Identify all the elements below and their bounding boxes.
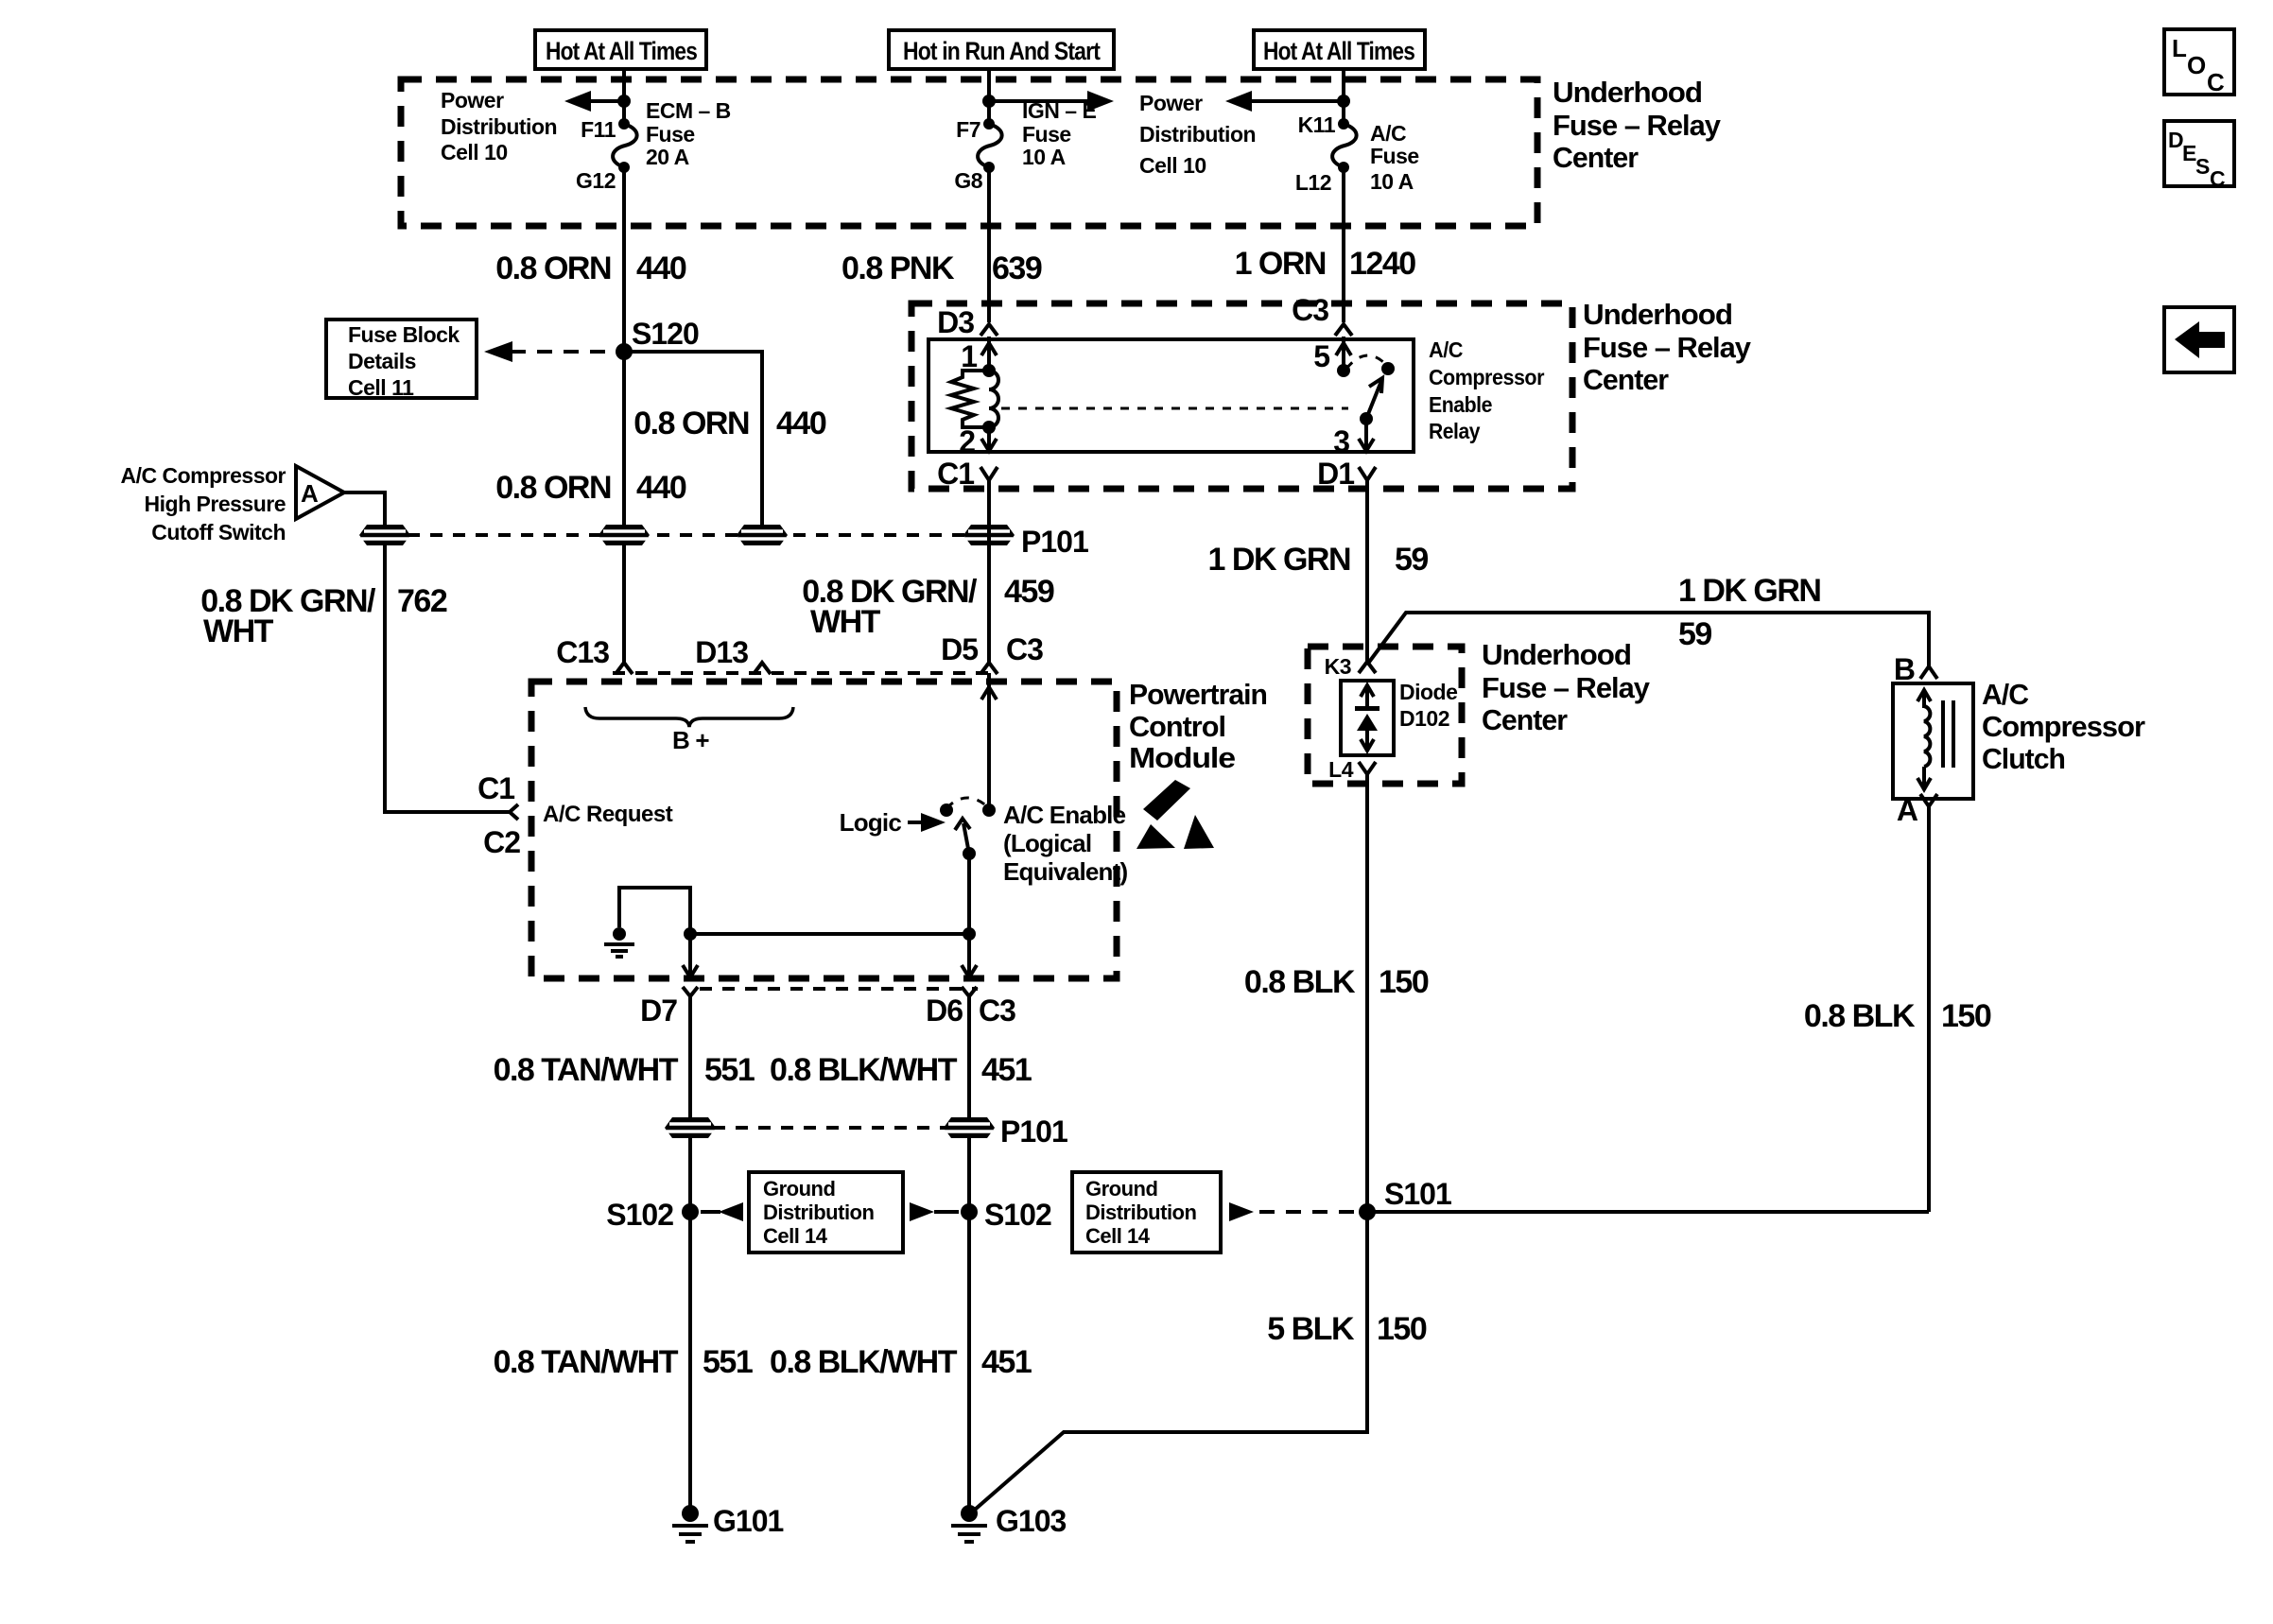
svg-text:A/C: A/C bbox=[1370, 121, 1406, 146]
svg-text:WHT: WHT bbox=[203, 613, 274, 649]
wire: 0.8 BLK 150 from clutch A down to S101 line bbox=[1927, 806, 1931, 1212]
terminal D5/C3 (PCM) bbox=[941, 632, 1043, 674]
svg-text:F7: F7 bbox=[956, 117, 980, 142]
wire: branch from S120 to D13 drop bbox=[624, 352, 762, 535]
label: 0.8 BLK 150 (left run) bbox=[1244, 964, 1429, 1000]
svg-text:D: D bbox=[2168, 128, 2183, 152]
legend box DESC bbox=[2164, 121, 2234, 191]
label: 0.8 ORN 440 (top) bbox=[495, 251, 686, 286]
svg-text:C: C bbox=[2210, 166, 2225, 191]
svg-text:Hot in Run And Start: Hot in Run And Start bbox=[903, 37, 1101, 65]
svg-text:G8: G8 bbox=[954, 168, 982, 193]
label: 0.8 TAN/WHT 551 (upper) bbox=[494, 1052, 755, 1088]
svg-text:20 A: 20 A bbox=[646, 145, 689, 169]
svg-text:K3: K3 bbox=[1325, 654, 1351, 679]
svg-text:Diode: Diode bbox=[1399, 680, 1457, 704]
svg-text:59: 59 bbox=[1395, 542, 1428, 578]
wire: PCM D7 output with down arrow bbox=[683, 934, 698, 977]
diode D102 box bbox=[1341, 681, 1394, 755]
box: Ground Distribution Cell 14 (left) bbox=[749, 1172, 903, 1253]
svg-text:Module: Module bbox=[1129, 741, 1236, 774]
power feed header box "Hot in Run And Start" bbox=[889, 30, 1114, 69]
svg-text:3: 3 bbox=[1333, 424, 1349, 458]
node: splice S120 bbox=[616, 343, 633, 360]
svg-text:P101: P101 bbox=[1021, 525, 1088, 559]
wire: S101 to clutch ground wire bbox=[1367, 1210, 1929, 1214]
svg-text:Fuse: Fuse bbox=[1370, 144, 1419, 168]
brace: B+ over C13/D13 bbox=[585, 707, 793, 754]
svg-text:C3: C3 bbox=[979, 993, 1015, 1028]
wire: IGN-E feed vertical from Hot in Run And Start bbox=[987, 69, 991, 124]
svg-text:Distribution: Distribution bbox=[763, 1201, 874, 1224]
wire: switch pivot down to internal junction bbox=[967, 854, 971, 934]
node: internal junction right bbox=[963, 927, 976, 941]
svg-text:P101: P101 bbox=[1000, 1114, 1067, 1149]
svg-text:C1: C1 bbox=[937, 457, 974, 491]
svg-text:Underhood: Underhood bbox=[1553, 76, 1702, 109]
svg-text:10 A: 10 A bbox=[1370, 169, 1414, 194]
A/C compressor clutch box bbox=[1893, 683, 1973, 799]
svg-text:Logic: Logic bbox=[840, 808, 902, 837]
wire: from cutoff switch A to grommet bbox=[344, 492, 385, 526]
terminal C1 (relay output) bbox=[937, 457, 998, 491]
svg-text:K11: K11 bbox=[1298, 112, 1336, 137]
terminal D7 bbox=[640, 987, 698, 1028]
wire: arrow to power distribution (points left) bbox=[1225, 91, 1344, 112]
label: 0.8 DK GRN/WHT 459 bbox=[802, 574, 1054, 640]
svg-text:59: 59 bbox=[1678, 616, 1711, 652]
label: 0.8 BLK/WHT 451 (upper) bbox=[770, 1052, 1032, 1088]
svg-text:Powertrain: Powertrain bbox=[1129, 678, 1267, 711]
svg-text:451: 451 bbox=[981, 1052, 1032, 1088]
node: A/C enable switch pivot bbox=[963, 847, 976, 860]
svg-text:Fuse – Relay: Fuse – Relay bbox=[1482, 671, 1651, 704]
label: 0.8 PNK 639 bbox=[842, 251, 1042, 286]
grommet at x=1025 (row 2, P101) bbox=[944, 1117, 995, 1138]
svg-text:Power: Power bbox=[1139, 91, 1203, 115]
coil (relay winding) bbox=[989, 371, 998, 427]
svg-text:D1: D1 bbox=[1317, 457, 1354, 491]
relay outline: A/C Compressor Enable Relay bbox=[928, 339, 1414, 452]
svg-text:Distribution: Distribution bbox=[441, 114, 557, 139]
A/C compressor clutch terminal B bbox=[1894, 652, 1937, 686]
svg-text:G103: G103 bbox=[996, 1504, 1066, 1538]
svg-text:D102: D102 bbox=[1399, 706, 1449, 731]
grommet at x=806 (pass-through) bbox=[737, 525, 788, 545]
svg-text:Compressor: Compressor bbox=[1982, 710, 2145, 743]
resistor (relay coil suppression) bbox=[951, 371, 989, 427]
A/C enable switch lever with arrowhead bbox=[955, 819, 970, 854]
wire: 0.8 PNK 639 segment (fuse G8 down) bbox=[987, 167, 991, 322]
svg-text:Center: Center bbox=[1482, 703, 1568, 736]
terminal C13 (PCM) bbox=[556, 635, 633, 674]
node: A/C enable switch contact (floating) bbox=[940, 803, 953, 817]
svg-text:451: 451 bbox=[981, 1344, 1032, 1380]
svg-text:Cell 10: Cell 10 bbox=[1139, 153, 1206, 178]
reference arrow left (to S102) bbox=[701, 1202, 743, 1221]
svg-text:1 DK GRN: 1 DK GRN bbox=[1208, 542, 1350, 578]
label: Underhood Fuse - Relay Center (relay, right) bbox=[1583, 298, 1752, 396]
svg-text:Hot At All Times: Hot At All Times bbox=[546, 37, 697, 65]
dashed connector interface line (D7-D6) bbox=[700, 987, 978, 991]
grommet at x=1046 (pass-through P101) bbox=[963, 525, 1015, 545]
wire: D3 into relay pin 1 with up arrow bbox=[961, 337, 997, 373]
wire: 1 DK GRN 59 from D1 down to K3 bbox=[1365, 480, 1369, 662]
svg-text:G12: G12 bbox=[576, 168, 616, 193]
svg-text:Underhood: Underhood bbox=[1482, 638, 1631, 671]
svg-text:Relay: Relay bbox=[1429, 419, 1481, 443]
label: Logic with arrow bbox=[840, 808, 946, 837]
svg-text:0.8 BLK/WHT: 0.8 BLK/WHT bbox=[770, 1052, 958, 1088]
svg-text:A: A bbox=[301, 479, 319, 508]
relay internal dashed link (coil to switch) bbox=[1001, 407, 1348, 410]
wire: 5 BLK 150 from S101 down and over to G103 bbox=[975, 1212, 1367, 1510]
wire: dashed reference arrow from S120 to Fuse Block Details bbox=[484, 341, 618, 362]
wire: S120 down to C13 bbox=[622, 352, 626, 663]
svg-text:A/C: A/C bbox=[1982, 678, 2029, 711]
svg-text:0.8 ORN: 0.8 ORN bbox=[495, 251, 611, 286]
label: 5 BLK 150 bbox=[1267, 1311, 1427, 1347]
wire: 0.8 BLK/WHT 451 (D6 down) bbox=[967, 996, 971, 1506]
clutch plates (bars) bbox=[1943, 700, 1953, 768]
svg-text:S102: S102 bbox=[984, 1198, 1051, 1232]
svg-text:Details: Details bbox=[348, 349, 416, 373]
svg-text:A/C: A/C bbox=[1429, 337, 1463, 362]
label: ECM-B Fuse 20 A bbox=[646, 98, 731, 169]
svg-text:150: 150 bbox=[1379, 964, 1429, 1000]
svg-text:A/C Compressor: A/C Compressor bbox=[121, 463, 286, 488]
svg-text:Ground: Ground bbox=[1085, 1177, 1157, 1201]
label: A/C Compressor Clutch bbox=[1982, 678, 2145, 775]
svg-text:Center: Center bbox=[1553, 141, 1639, 174]
node: splice S101 bbox=[1359, 1203, 1376, 1220]
clutch coil with arrows bbox=[1917, 690, 1931, 789]
svg-text:B: B bbox=[1894, 652, 1915, 686]
node: top junction on IGN-E feed bbox=[982, 95, 996, 108]
node: relay coil top bbox=[982, 364, 996, 377]
svg-text:0.8 ORN: 0.8 ORN bbox=[633, 406, 749, 441]
svg-text:Clutch: Clutch bbox=[1982, 742, 2065, 775]
dashed box: Underhood Fuse - Relay Center (relay) bbox=[911, 303, 1572, 489]
svg-text:S102: S102 bbox=[606, 1198, 673, 1232]
svg-text:C13: C13 bbox=[556, 635, 609, 669]
label: Underhood Fuse - Relay Center (top right) bbox=[1553, 76, 1722, 174]
svg-text:Fuse – Relay: Fuse – Relay bbox=[1583, 331, 1752, 364]
svg-text:B +: B + bbox=[672, 726, 709, 754]
svg-text:1 DK GRN: 1 DK GRN bbox=[1678, 573, 1820, 609]
svg-text:1: 1 bbox=[961, 339, 977, 373]
terminal D3 (relay connector) bbox=[937, 305, 998, 339]
svg-text:E: E bbox=[2182, 141, 2196, 165]
terminal D13 (PCM) bbox=[695, 635, 771, 674]
svg-text:A: A bbox=[1897, 793, 1918, 827]
svg-text:Distribution: Distribution bbox=[1139, 122, 1256, 147]
A/C compressor clutch terminal A bbox=[1897, 793, 1937, 827]
terminal K3 bbox=[1325, 654, 1376, 679]
svg-text:(Logical: (Logical bbox=[1003, 829, 1091, 857]
svg-text:Underhood: Underhood bbox=[1583, 298, 1732, 331]
svg-text:S: S bbox=[2195, 154, 2210, 179]
svg-text:551: 551 bbox=[703, 1344, 753, 1380]
svg-text:Power: Power bbox=[441, 88, 504, 112]
svg-text:Enable: Enable bbox=[1429, 392, 1492, 417]
svg-text:Cutoff Switch: Cutoff Switch bbox=[151, 520, 286, 544]
svg-text:IGN – E: IGN – E bbox=[1022, 98, 1096, 123]
svg-text:0.8 BLK: 0.8 BLK bbox=[1244, 964, 1356, 1000]
wire: 0.8 BLK 150 from L4 down to S101 bbox=[1365, 774, 1369, 1212]
svg-text:1240: 1240 bbox=[1349, 246, 1415, 282]
svg-text:Fuse: Fuse bbox=[1022, 122, 1071, 147]
svg-text:10 A: 10 A bbox=[1022, 145, 1066, 169]
svg-text:0.8 TAN/WHT: 0.8 TAN/WHT bbox=[494, 1344, 679, 1380]
svg-text:WHT: WHT bbox=[810, 604, 881, 640]
label: A/C Fuse 10 A bbox=[1370, 121, 1419, 194]
svg-text:0.8 BLK: 0.8 BLK bbox=[1804, 998, 1916, 1034]
svg-text:440: 440 bbox=[776, 406, 826, 441]
svg-text:C3: C3 bbox=[1006, 632, 1043, 666]
svg-text:Fuse: Fuse bbox=[646, 122, 695, 147]
svg-text:Control: Control bbox=[1129, 710, 1225, 743]
relay switch lever with arrowhead bbox=[1366, 378, 1382, 419]
grommet at x=660 (pass-through) bbox=[599, 525, 650, 545]
svg-text:150: 150 bbox=[1377, 1311, 1427, 1347]
svg-text:Hot At All Times: Hot At All Times bbox=[1263, 37, 1414, 65]
wire: ECM-B feed vertical from Hot At All Times bbox=[622, 69, 626, 124]
grommet at x=730 (row 2) bbox=[665, 1117, 716, 1138]
box: Ground Distribution Cell 14 (right) bbox=[1072, 1172, 1221, 1253]
A/C enable switch dashed travel arc bbox=[946, 798, 989, 808]
fuse A/C 10A (K11/L12) bbox=[1332, 118, 1357, 173]
label: A/C Compressor Enable Relay bbox=[1429, 337, 1545, 443]
svg-text:762: 762 bbox=[397, 583, 447, 619]
fuse ECM-B 20A (F11/G12) bbox=[613, 118, 637, 173]
label: A/C Compressor High Pressure Cutoff Switch bbox=[121, 463, 286, 544]
dashed box: Underhood Fuse - Relay Center (diode) bbox=[1308, 647, 1462, 784]
wire: dashed reference line to S101 bbox=[1259, 1210, 1360, 1214]
svg-text:O: O bbox=[2187, 51, 2206, 79]
svg-text:Cell 14: Cell 14 bbox=[1085, 1224, 1151, 1248]
svg-text:C2: C2 bbox=[483, 825, 520, 859]
ESD sensitive symbol bbox=[1136, 780, 1214, 849]
label: 0.8 DK GRN/WHT 762 bbox=[200, 583, 447, 649]
dashed connector interface line (C13-D13-D5) bbox=[613, 671, 998, 675]
node: relay coil bottom bbox=[982, 421, 996, 434]
reference arrow right (to S102 right) bbox=[910, 1202, 959, 1221]
terminal D6/C3 bbox=[926, 987, 1015, 1028]
wire: arrow to power distribution (left) bbox=[564, 91, 624, 112]
svg-text:D6: D6 bbox=[926, 993, 963, 1028]
dashed bulkhead pass-through line (row 2) bbox=[690, 1126, 969, 1130]
svg-text:D3: D3 bbox=[937, 305, 974, 339]
svg-text:L12: L12 bbox=[1295, 170, 1331, 195]
svg-text:150: 150 bbox=[1941, 998, 1991, 1034]
wire: internal horizontal link bbox=[690, 932, 969, 936]
wire: relay pin 2 down arrow to C1 bbox=[959, 424, 997, 458]
ground G101 bbox=[672, 1504, 783, 1542]
svg-text:639: 639 bbox=[992, 251, 1042, 286]
svg-text:High Pressure: High Pressure bbox=[145, 492, 286, 516]
svg-text:ECM – B: ECM – B bbox=[646, 98, 731, 123]
svg-text:F11: F11 bbox=[581, 117, 616, 142]
diode D102 symbol bbox=[1355, 685, 1379, 751]
ground symbol (PCM internal) bbox=[604, 927, 634, 957]
wire: 0.8 TAN/WHT 551 (D7 down) bbox=[688, 996, 692, 1506]
wire: arrow to right (run/start feed) bbox=[989, 91, 1114, 112]
label: 0.8 BLK/WHT 451 (lower) bbox=[770, 1344, 1032, 1380]
svg-text:A/C Enable: A/C Enable bbox=[1003, 801, 1126, 829]
terminal D1 (relay output to clutch) bbox=[1317, 457, 1376, 491]
svg-text:L4: L4 bbox=[1328, 757, 1354, 782]
node: internal junction left bbox=[684, 927, 697, 941]
label: 1 ORN 1240 bbox=[1235, 246, 1416, 282]
wire: 1 DK GRN 59 branch to A/C compressor clutch bbox=[1367, 613, 1929, 666]
label: 0.8 ORN 440 (branch) bbox=[633, 406, 826, 441]
fuse IGN-E 10A (F7/G8) bbox=[978, 118, 1002, 173]
svg-text:Equivalent): Equivalent) bbox=[1003, 857, 1127, 886]
wire: D5 into PCM with up arrow to switch bbox=[981, 673, 997, 810]
svg-text:551: 551 bbox=[704, 1052, 755, 1088]
svg-text:Fuse Block: Fuse Block bbox=[348, 322, 460, 347]
label: Underhood Fuse - Relay Center (diode, right) bbox=[1482, 638, 1651, 736]
svg-text:Center: Center bbox=[1583, 363, 1669, 396]
wire: 0.8 DK GRN/WHT 762 down then right to PCM C1 bbox=[385, 544, 510, 812]
connector triangle A (high pressure cutoff switch) bbox=[296, 466, 344, 519]
wire: internal ground hook bbox=[619, 888, 690, 934]
svg-text:440: 440 bbox=[636, 251, 686, 286]
svg-text:440: 440 bbox=[636, 470, 686, 506]
svg-text:5 BLK: 5 BLK bbox=[1267, 1311, 1355, 1347]
svg-text:Fuse – Relay: Fuse – Relay bbox=[1553, 109, 1722, 142]
svg-text:459: 459 bbox=[1004, 574, 1054, 610]
label: Powertrain Control Module bbox=[1129, 678, 1267, 774]
wire: 0.8 ORN 440 segment (fuse G12 to S120) bbox=[622, 167, 626, 352]
svg-text:D13: D13 bbox=[695, 635, 748, 669]
svg-text:D7: D7 bbox=[640, 993, 677, 1028]
node: relay switch pivot (pin 3) bbox=[1360, 412, 1373, 425]
legend box back-arrow bbox=[2164, 307, 2234, 372]
terminal L4 bbox=[1328, 757, 1376, 782]
svg-text:5: 5 bbox=[1313, 339, 1329, 373]
label: Power Distribution Cell 10 (right) bbox=[1139, 91, 1256, 178]
svg-text:A/C Request: A/C Request bbox=[543, 802, 673, 827]
wire: PCM D6 output with down arrow bbox=[962, 934, 977, 977]
svg-text:C3: C3 bbox=[1292, 293, 1328, 327]
label: 1 DK GRN 59 (vertical run) bbox=[1208, 542, 1429, 578]
ground G103 bbox=[951, 1504, 1066, 1542]
svg-text:0.8 PNK: 0.8 PNK bbox=[842, 251, 955, 286]
box: Fuse Block Details Cell 11 bbox=[326, 320, 477, 400]
svg-text:Cell 10: Cell 10 bbox=[441, 140, 508, 164]
terminal C1/C2 (PCM left, A/C request input) bbox=[477, 771, 520, 859]
label: Diode D102 bbox=[1399, 680, 1457, 731]
dashed box: Underhood Fuse - Relay Center (top) bbox=[401, 79, 1537, 226]
label: 0.8 ORN 440 (lower) bbox=[495, 470, 686, 506]
legend box LOC bbox=[2164, 29, 2234, 96]
wire: relay C1 down to P101 grommet and D5 bbox=[987, 480, 991, 663]
svg-text:0.8 ORN: 0.8 ORN bbox=[495, 470, 611, 506]
svg-text:C: C bbox=[2207, 68, 2225, 96]
node: top junction on ECM-B feed bbox=[617, 95, 631, 108]
svg-text:Cell 14: Cell 14 bbox=[763, 1224, 828, 1248]
node: top junction on A/C fuse feed bbox=[1337, 95, 1350, 108]
wire: relay pin 3 down arrow bbox=[1333, 419, 1374, 458]
dashed box: Powertrain Control Module bbox=[531, 682, 1117, 978]
node: splice S102 (right) bbox=[961, 1203, 978, 1220]
reference arrow right (to S101) bbox=[1229, 1202, 1254, 1221]
wire: 1 ORN 1240 segment (fuse L12 down) bbox=[1342, 167, 1345, 322]
terminal C3 (relay connector, pin 5 feed) bbox=[1292, 293, 1352, 336]
wire: relay pin 5 up arrow bbox=[1313, 337, 1351, 373]
svg-text:Compressor: Compressor bbox=[1429, 365, 1545, 389]
svg-text:1 ORN: 1 ORN bbox=[1235, 246, 1326, 282]
svg-text:Ground: Ground bbox=[763, 1177, 835, 1201]
label: 0.8 BLK 150 (clutch run) bbox=[1804, 998, 1991, 1034]
node: splice S102 (left) bbox=[682, 1203, 699, 1220]
grommet at x=407 (pass-through) bbox=[359, 525, 410, 545]
svg-text:Cell 11: Cell 11 bbox=[348, 375, 414, 400]
svg-text:0.8 TAN/WHT: 0.8 TAN/WHT bbox=[494, 1052, 679, 1088]
svg-text:0.8 BLK/WHT: 0.8 BLK/WHT bbox=[770, 1344, 958, 1380]
label: Power Distribution Cell 10 (left) bbox=[441, 88, 557, 164]
svg-text:L: L bbox=[2172, 34, 2187, 62]
node: relay switch contact (floating) bbox=[1381, 362, 1395, 375]
label: A/C Enable (Logical Equivalent) bbox=[1003, 801, 1127, 886]
power feed header box "Hot At All Times" (right) bbox=[1254, 30, 1425, 69]
svg-text:D5: D5 bbox=[941, 632, 978, 666]
svg-text:S101: S101 bbox=[1384, 1177, 1451, 1211]
node: relay switch common (pin 5) bbox=[1337, 364, 1350, 377]
label: 0.8 TAN/WHT 551 (lower) bbox=[494, 1344, 753, 1380]
relay switch dashed travel arc bbox=[1346, 355, 1388, 369]
svg-text:S120: S120 bbox=[632, 317, 699, 351]
svg-text:C1: C1 bbox=[477, 771, 514, 805]
svg-text:Distribution: Distribution bbox=[1085, 1201, 1196, 1224]
svg-text:G101: G101 bbox=[713, 1504, 783, 1538]
node: A/C enable switch contact (on D5 wire) bbox=[982, 803, 996, 817]
svg-text:2: 2 bbox=[959, 424, 975, 458]
label: IGN-E Fuse 10 A bbox=[1022, 98, 1096, 169]
wire: A/C fuse feed vertical from Hot At All Times (right) bbox=[1342, 69, 1345, 124]
power feed header box "Hot At All Times" (left) bbox=[535, 30, 706, 69]
wire: dashed bulkhead pass-through line (row 1) bbox=[385, 533, 989, 537]
